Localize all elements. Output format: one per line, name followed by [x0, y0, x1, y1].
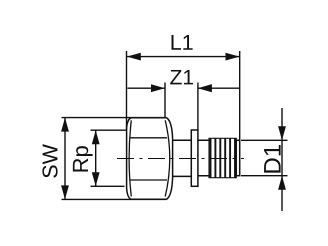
- SW arrow bottom: [61, 185, 69, 199]
- neck cylinder: [173, 140, 192, 176]
- SW arrow top: [61, 118, 69, 132]
- SW extension line top: [62, 117, 167, 119]
- collar disc: [191, 130, 198, 186]
- D1 dimension line: [281, 108, 283, 211]
- L1 extension line left: [126, 51, 128, 130]
- L1 arrow left: [127, 53, 141, 61]
- hex body outline: [127, 118, 173, 200]
- label L1: [172, 35, 193, 50]
- Z1 arrow right: [198, 84, 212, 92]
- hex face boundary top: [130, 137, 168, 139]
- label SW: [42, 144, 57, 178]
- D1 extension line bottom: [241, 175, 288, 177]
- Rp extension line bottom: [91, 185, 125, 187]
- D1 arrow top: [278, 126, 286, 140]
- D1 arrow bottom: [278, 176, 286, 190]
- pipe end cylinder: [236, 140, 239, 175]
- L1 arrow right: [226, 53, 240, 61]
- label D1: [264, 145, 281, 173]
- label Rp: [73, 146, 93, 171]
- Rp extension line top: [91, 129, 127, 131]
- hex chamfer arc right: [165, 120, 170, 196]
- D1 extension line top: [241, 139, 288, 141]
- label Z1: [170, 70, 193, 84]
- rib bars: [210, 138, 236, 177]
- Rp arrow bottom: [92, 172, 100, 186]
- cylinder after disc: [198, 140, 209, 175]
- Z1 arrow left: [151, 84, 165, 92]
- L1 extension line right: [239, 51, 241, 140]
- ribbed press zone outline: [209, 138, 236, 177]
- Rp dimension line: [95, 130, 97, 186]
- Z1 dimension line right tail: [198, 87, 239, 89]
- centerline: [117, 158, 244, 160]
- hex chamfer arc left: [129, 120, 131, 196]
- Z1 extension line left: [164, 83, 166, 118]
- dimension lines: [62, 51, 288, 211]
- arrowheads: [61, 53, 286, 200]
- Z1 extension line right: [197, 83, 199, 130]
- L1 dimension line: [127, 56, 240, 58]
- SW extension line bottom: [62, 198, 167, 200]
- SW dimension line: [64, 118, 66, 200]
- Z1 dimension line left tail: [128, 87, 166, 89]
- Rp arrow top: [92, 130, 100, 144]
- hex face boundary bottom: [130, 179, 168, 181]
